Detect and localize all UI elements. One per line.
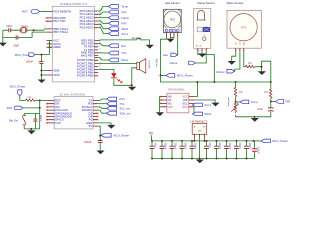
wire rail to MCU_Power right: [254, 140, 262, 142]
net flag SDA1 at U3: [192, 112, 212, 116]
svg-text:HQ: HQ: [170, 18, 175, 22]
svg-text:100nF: 100nF: [238, 143, 241, 150]
U3 pin stubs: [160, 96, 194, 107]
junction lower rst: [39, 107, 41, 109]
wire motor pin3 to resistor: [244, 52, 246, 67]
svg-text:Btn Sw: Btn Sw: [9, 119, 18, 123]
wire PC1 to Gas: [98, 12, 108, 14]
svg-text:PIR: PIR: [121, 22, 126, 26]
ground U3: [156, 112, 164, 116]
net flag MCU_Power down (reset pullup): [10, 85, 26, 96]
svg-text:Motor: Motor: [121, 58, 128, 62]
svg-text:SCL: SCL: [182, 102, 188, 106]
crystal cap C2 22pF: [3, 32, 47, 47]
net flag MCU_Power at U2: [101, 133, 129, 137]
svg-text:SCL1: SCL1: [121, 32, 128, 36]
flame sensor pin stubs: [198, 48, 206, 51]
junction crystal node: [33, 29, 35, 31]
wire motor pin2 to Motion flag: [235, 52, 240, 71]
svg-text:10k: 10k: [239, 91, 244, 94]
wire PB3 to LED: [98, 70, 114, 74]
ground R4: [258, 71, 266, 75]
svg-text:3.3V: 3.3V: [55, 121, 61, 125]
net flag Flame: [109, 16, 130, 20]
svg-text:100nF: 100nF: [39, 115, 42, 122]
svg-text:100nF: 100nF: [184, 143, 187, 150]
module U2 body: [54, 92, 93, 129]
resistor R2 10k temp: [234, 82, 243, 102]
svg-text:GND: GND: [53, 68, 59, 72]
wire TX to RX1 flag: [98, 99, 107, 100]
svg-text:Motor Sensor: Motor Sensor: [227, 1, 244, 5]
svg-text:100nF: 100nF: [218, 143, 221, 150]
junction pir node: [270, 101, 272, 103]
svg-text:MCU_Power: MCU_Power: [10, 85, 26, 89]
wire to Temp flag: [236, 101, 240, 103]
MCU U1 body ATMEGA328P-PU: [52, 2, 94, 82]
net flag Gas: [109, 10, 127, 14]
U1 right pin names: [77, 9, 94, 78]
net flag Temp: [109, 5, 129, 9]
wire RST flag to node: [23, 100, 40, 113]
net flag Flame at sensor: [170, 61, 196, 65]
wire U2 GND to ground: [98, 123, 112, 125]
wire PB0 to Motor: [98, 58, 108, 61]
svg-text:1 2 3: 1 2 3: [196, 50, 200, 52]
wire gas pin4 to Gas flag: [177, 37, 179, 55]
wire RST to pin1: [40, 11, 47, 13]
wire flame vcc to rail: [198, 51, 215, 82]
svg-text:PC6 RESET#: PC6 RESET#: [53, 9, 71, 13]
net flag SDA1: [109, 27, 129, 31]
wire D1 to SCL_ext: [98, 107, 107, 108]
svg-text:Gas Sensor: Gas Sensor: [165, 1, 180, 5]
svg-text:10uF: 10uF: [154, 143, 157, 149]
svg-text:MCU_Power: MCU_Power: [272, 139, 288, 143]
ground flame: [198, 54, 206, 58]
ground Amb wire: [146, 45, 154, 49]
wire PC0 to Temp: [98, 6, 108, 11]
svg-text:MCU_Power: MCU_Power: [177, 74, 193, 78]
svg-text:11: 11: [99, 48, 102, 50]
wire U3 VCC up to rail: [194, 82, 197, 97]
button SW1: [9, 114, 40, 129]
wire R4 to ground and rail: [255, 61, 271, 82]
svg-text:LM78M05CT: LM78M05CT: [190, 119, 207, 123]
svg-text:Temp: Temp: [121, 5, 128, 9]
wire flag to R1: [20, 96, 26, 101]
U2 left pin stubs: [46, 100, 54, 123]
resistor R3 10k pir: [264, 82, 272, 102]
svg-text:ATMEGA328P-PU: ATMEGA328P-PU: [60, 2, 87, 6]
wire PC4 to SDA1: [98, 24, 108, 28]
svg-text:AIN1 PD7: AIN1 PD7: [81, 53, 94, 57]
flame sensor FS1 body: [194, 9, 211, 53]
wire SCL to flag: [192, 103, 194, 105]
wire PC5 to SCL1: [98, 28, 108, 34]
svg-text:PIR: PIR: [286, 100, 291, 104]
crystal X1 16MHz: [20, 24, 33, 32]
svg-text:SA0: SA0: [168, 106, 173, 109]
wire flame gnd: [201, 51, 203, 53]
wire D2 to SDA_ext: [98, 110, 107, 113]
net flag Temp at divider: [240, 100, 258, 104]
svg-text:MCU_Power: MCU_Power: [15, 53, 31, 57]
net flag Buz: [109, 44, 127, 48]
wire thermistor bottom: [236, 114, 271, 117]
svg-text:10k: 10k: [264, 91, 269, 94]
wire RX to TX1 flag: [98, 103, 107, 105]
wire PD3 to Buz: [98, 44, 108, 46]
gas sensor pin stubs: [167, 33, 178, 37]
wires GND pins to ground: [40, 70, 46, 80]
svg-text:Buz: Buz: [121, 44, 126, 48]
net flag MCU_Power bottom right: [261, 139, 288, 143]
ground divider: [251, 116, 259, 122]
net flag Motion: [217, 69, 235, 74]
wire rail to MCU_Power flag: [161, 74, 167, 76]
ground regulator: [196, 160, 204, 164]
svg-text:100nF: 100nF: [84, 140, 92, 144]
wire PC2 to Flame: [98, 17, 108, 19]
resistor R1 1k: [25, 96, 35, 102]
crystal cap C1 22pF: [3, 24, 20, 32]
svg-text:RST: RST: [7, 106, 13, 110]
ground xtal: [0, 42, 7, 46]
wire motor pin1 to ground: [232, 52, 236, 61]
gas sensor GS1 body: [164, 9, 182, 32]
junction cap bottom: [30, 128, 32, 130]
ground U2: [107, 125, 115, 129]
svg-text:MQ2 Gas: MQ2 Gas: [155, 59, 157, 67]
ground buzzer/led: [128, 85, 136, 90]
svg-text:BUZZER: BUZZER: [148, 61, 150, 70]
svg-text:GND: GND: [242, 42, 244, 47]
wires gas pins 2,3 to ground: [171, 37, 175, 39]
wire 5V to rail: [151, 135, 153, 141]
ground reset: [27, 129, 35, 134]
svg-text:7: 7: [44, 39, 46, 41]
svg-text:22pF: 22pF: [13, 43, 19, 47]
U2 right pin names: [82, 99, 93, 129]
power rail horizontal: [160, 74, 272, 83]
net flag RST top: [22, 10, 40, 14]
ground WP: [211, 103, 219, 107]
EEPROM U3 body AT24C04: [167, 87, 189, 112]
svg-text:RST: RST: [22, 10, 28, 14]
svg-text:Temp: Temp: [251, 100, 258, 104]
wire PB1 to buzzer: [98, 62, 137, 64]
svg-text:PC5 ADC5: PC5 ADC5: [80, 25, 94, 29]
U1 left pin stubs: [44, 10, 52, 75]
svg-text:RPM: RPM: [241, 25, 247, 29]
svg-text:5V: 5V: [89, 124, 93, 128]
motor sensor MS1 body: [227, 11, 261, 49]
thermistor RT1: [231, 102, 238, 113]
svg-text:GND: GND: [53, 73, 59, 77]
U4 pins to rails: [193, 134, 205, 159]
svg-text:SDA1: SDA1: [121, 27, 129, 31]
svg-text:100nF: 100nF: [26, 60, 34, 64]
wire U3 WP to ground: [194, 100, 215, 103]
svg-text:AT24C04(N): AT24C04(N): [168, 87, 185, 91]
wire LED cathode to ground: [114, 78, 133, 87]
wires U3 left pins to ground: [160, 97, 161, 113]
wire U2 5V down: [98, 126, 101, 136]
net flag PIR at divider: [275, 100, 290, 104]
junction MCU_Power node: [40, 54, 42, 56]
svg-text:100uF: 100uF: [257, 147, 260, 154]
wire PD2 long with hop: [98, 38, 149, 44]
svg-text:Motion: Motion: [217, 70, 226, 74]
LED D1 red: [111, 73, 122, 83]
net flag RX1: [107, 97, 126, 101]
svg-text:SDA1: SDA1: [204, 112, 212, 116]
svg-text:5V: 5V: [149, 132, 154, 136]
gas sensor pin numbers: [166, 31, 179, 33]
svg-text:10k: 10k: [248, 62, 253, 65]
svg-text:SDA: SDA: [183, 106, 188, 109]
svg-text:PCINT5 PB5: PCINT5 PB5: [77, 74, 94, 78]
cap bank bottom rail: [151, 158, 255, 160]
U3 right pin names: [182, 96, 188, 109]
U1 right pin stubs and numbers: [94, 10, 102, 76]
wire buzzer return: [132, 68, 137, 86]
svg-text:PD1 TXD: PD1 TXD: [53, 19, 65, 23]
ground C5: [96, 151, 104, 155]
svg-text:6: 6: [99, 45, 101, 47]
svg-text:47uF: 47uF: [257, 107, 263, 111]
ground motor: [228, 61, 236, 65]
U3 left pin names: [168, 95, 173, 109]
cap bank top rail: [151, 140, 255, 142]
svg-text:PB7 XTAL2: PB7 XTAL2: [53, 30, 68, 34]
svg-text:100nF: 100nF: [248, 143, 251, 150]
wire button/cap bottom: [24, 114, 40, 129]
motor sensor pin stubs: [236, 48, 244, 52]
buzzer BZ1: [137, 59, 150, 73]
net flag TX1: [109, 51, 127, 55]
U2 right pin stubs: [93, 100, 98, 126]
junction temp node: [235, 101, 237, 103]
svg-text:B1 Wire B SPI(INO): B1 Wire B SPI(INO): [60, 92, 86, 96]
junction RST node: [39, 99, 41, 101]
net flag SCL_ext: [107, 106, 131, 110]
svg-text:TX1: TX1: [120, 102, 126, 106]
svg-text:16: 16: [99, 65, 102, 67]
svg-text:100nF: 100nF: [174, 143, 177, 150]
wire crystal to XTAL1: [34, 29, 47, 30]
svg-text:100nF: 100nF: [164, 143, 167, 150]
svg-text:Amb Se: Amb Se: [132, 36, 142, 40]
regulator U4 body LM78M05CT: [190, 119, 207, 134]
resistor R4 10k: [246, 62, 255, 68]
capacitor C4 at reset: [33, 114, 41, 129]
svg-text:100nF: 100nF: [194, 143, 197, 150]
decoupling cap bank: [150, 141, 252, 159]
net flag Gas at sensor: [163, 53, 178, 57]
svg-text:SCL_ext: SCL_ext: [120, 107, 131, 111]
wire PD6 to TX1: [98, 52, 108, 54]
svg-text:Gas: Gas: [121, 10, 127, 14]
svg-text:Flame: Flame: [121, 16, 129, 20]
capacitor C3 100nF at AREF: [26, 55, 44, 71]
net flag Motor: [109, 58, 129, 62]
svg-text:AREF: AREF: [53, 45, 61, 49]
wire MCU_Power to VCC/AVCC/AREF: [35, 41, 52, 55]
capacitor C5 100nF: [84, 136, 103, 151]
svg-text:VO: VO: [203, 126, 206, 128]
wire gas pin1 loop to power: [161, 37, 167, 76]
svg-text:SCL1: SCL1: [204, 103, 211, 107]
svg-text:Flame: Flame: [170, 61, 178, 65]
net flag SCL1 at U3: [192, 103, 211, 107]
net flag MCU_Power at rail: [166, 74, 193, 78]
svg-text:10uF: 10uF: [208, 143, 211, 149]
net flag RST lower: [7, 106, 23, 110]
wire flame out to flag: [196, 51, 207, 63]
svg-text:TX1: TX1: [121, 51, 127, 55]
U1 left pin names: [53, 9, 71, 77]
net flag SDA_ext: [107, 111, 131, 115]
ground MCU: [38, 80, 46, 84]
net flag PIR: [109, 21, 126, 25]
svg-text:MCU_Power: MCU_Power: [114, 133, 130, 137]
wire to PIR flag: [271, 101, 276, 103]
svg-text:RX1: RX1: [120, 97, 126, 101]
junction 5V node: [99, 135, 101, 137]
svg-text:100nF: 100nF: [228, 143, 231, 150]
net flag SCL1: [109, 32, 129, 36]
svg-text:A O G: A O G: [196, 45, 202, 48]
wire xtal ground leg: [2, 30, 4, 42]
svg-text:SDA_ext: SDA_ext: [120, 111, 131, 115]
net flag TX1 ext: [107, 102, 125, 106]
wire R1 to module RST: [35, 99, 46, 101]
capacitor C6 47uF: [257, 102, 274, 114]
net flag MCU_Power at VCC: [15, 53, 35, 57]
electrolytic cap C16: [252, 141, 260, 159]
U2 left pin names: [55, 99, 72, 125]
wire SDA to flag: [192, 107, 194, 114]
wire PC3 to PIR: [98, 21, 108, 23]
svg-text:Air Sensor: Air Sensor: [227, 98, 230, 108]
svg-text:Gas: Gas: [163, 53, 169, 57]
ground gas: [166, 39, 174, 43]
svg-text:Flame Sensor: Flame Sensor: [197, 1, 214, 5]
svg-text:A2: A2: [168, 102, 172, 106]
svg-text:22pF: 22pF: [6, 24, 12, 28]
